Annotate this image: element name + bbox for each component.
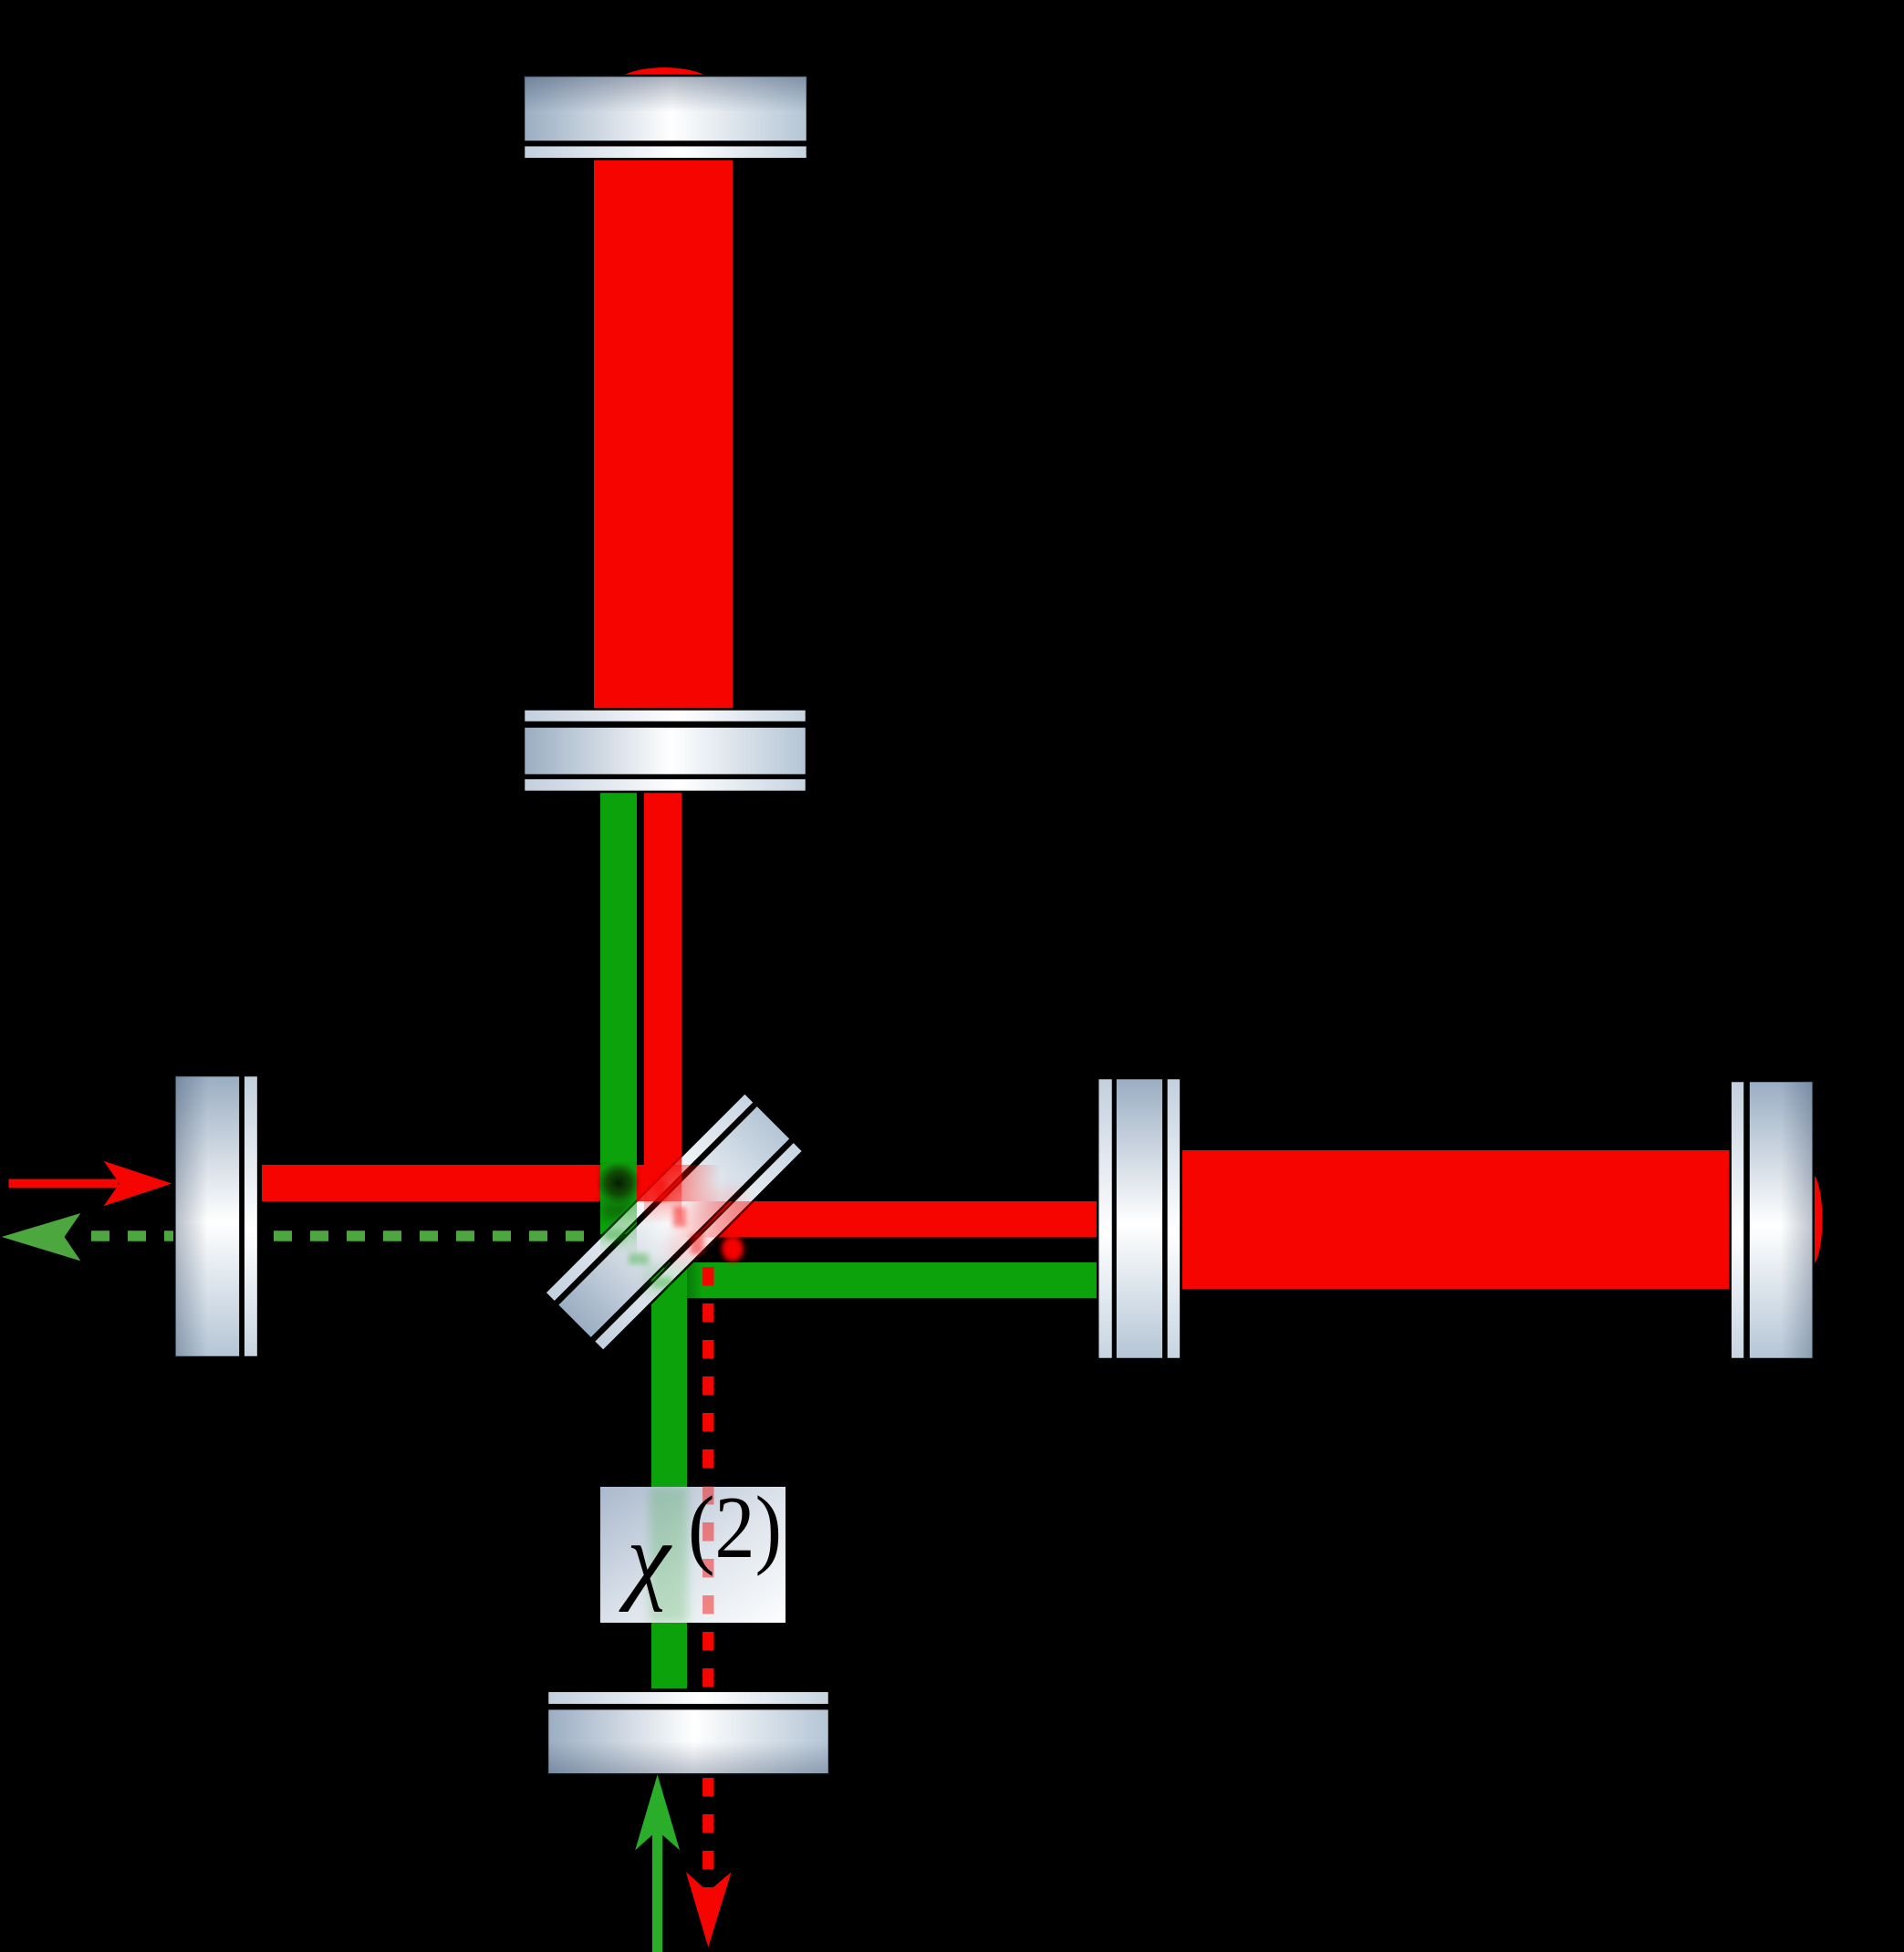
dashed red output beam going down	[702, 1267, 713, 1894]
faint refracted green dashes inside beamsplitter	[605, 1230, 672, 1288]
red input arrow (left)	[9, 1161, 172, 1207]
bottom end mirror	[547, 1691, 829, 1774]
red haze inside beamsplitter glass	[655, 1175, 760, 1280]
thin red beam from beamsplitter to right cavity mirror	[657, 1201, 1099, 1238]
green input arrow (bottom, pointing up)	[635, 1775, 680, 1952]
green beam from beamsplitter to right cavity mirror	[639, 1262, 1099, 1298]
beamsplitter (45 deg, strip/body/strip)	[545, 1093, 803, 1351]
green dashed output arrowhead (left)	[2, 1213, 81, 1261]
red leakage bump right of right end mirror	[1798, 1172, 1823, 1267]
right cavity input mirror	[1098, 1078, 1181, 1359]
dashed green output beam going left	[91, 1230, 602, 1241]
green beam below beamsplitter through crystal to bottom mirror	[651, 1268, 687, 1688]
wide red intracavity beam (right arm)	[1182, 1150, 1730, 1289]
left input mirror	[174, 1075, 258, 1357]
red dashed output arrowhead (bottom, pointing down)	[686, 1872, 732, 1947]
dark blend where red and green beams cross	[597, 1162, 640, 1220]
top end mirror	[524, 76, 807, 159]
red leakage bump above top mirror	[609, 67, 719, 113]
green beam between M2 and beamsplitter (vertical)	[600, 790, 637, 1234]
faint refracted red dashes inside beamsplitter	[654, 1180, 703, 1254]
red exit glow at beamsplitter right face	[722, 1236, 744, 1262]
chi(2) nonlinear crystal	[600, 1479, 786, 1623]
narrow red beam between M2 and beamsplitter (vertical)	[644, 790, 681, 1192]
red pump beam from left mirror to beamsplitter	[262, 1165, 671, 1201]
right end mirror	[1731, 1081, 1814, 1359]
wide red intracavity beam (vertical arm)	[594, 160, 733, 710]
svg-text:(2): (2)	[688, 1479, 782, 1576]
in-glass continuation of beams (clipped to beamsplitter)	[600, 1151, 757, 1298]
M2 input coupler of vertical cavity	[524, 710, 806, 793]
svg-text:χ: χ	[619, 1504, 672, 1613]
